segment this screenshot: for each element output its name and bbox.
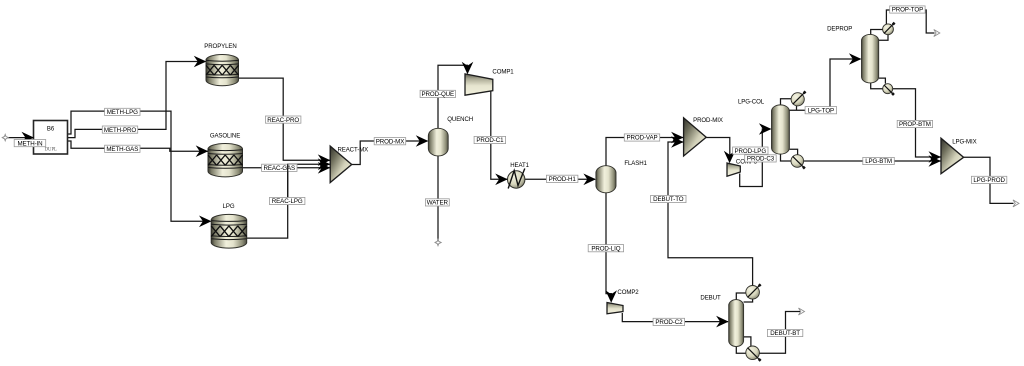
svg-text:PROD-C2: PROD-C2 [655, 319, 683, 326]
svg-text:PROP-BTM: PROP-BTM [899, 121, 931, 128]
svg-text:METH-IN: METH-IN [17, 140, 42, 147]
svg-text:PROD-VAP: PROD-VAP [626, 135, 657, 142]
svg-text:PROD-LPG: PROD-LPG [735, 148, 767, 155]
svg-text:METH-GAS: METH-GAS [106, 146, 138, 153]
svg-text:PROD-MIX: PROD-MIX [693, 117, 723, 124]
svg-text:DUPL: DUPL [45, 148, 57, 153]
svg-text:LPG-COL: LPG-COL [738, 98, 765, 105]
svg-text:PROD-QUE: PROD-QUE [422, 91, 455, 98]
svg-text:B6: B6 [47, 126, 55, 132]
svg-text:LPG-MIX: LPG-MIX [952, 139, 976, 146]
svg-text:QUENCH: QUENCH [447, 116, 473, 123]
svg-text:HEAT1: HEAT1 [510, 162, 529, 169]
svg-text:LPG-BTM: LPG-BTM [865, 158, 892, 165]
svg-text:METH-LPG: METH-LPG [107, 109, 138, 116]
svg-text:PROP-TOP: PROP-TOP [892, 7, 923, 14]
svg-text:PROD-LIQ: PROD-LIQ [591, 245, 620, 252]
svg-text:DEBUT: DEBUT [700, 295, 721, 302]
svg-text:PROD-C1: PROD-C1 [476, 137, 504, 144]
svg-text:LPG-TOP: LPG-TOP [808, 107, 834, 114]
svg-text:PROD-H1: PROD-H1 [549, 176, 577, 183]
svg-text:PROPYLEN: PROPYLEN [204, 43, 236, 50]
svg-text:PROD-MX: PROD-MX [376, 138, 405, 145]
svg-text:REAC-PRO: REAC-PRO [267, 117, 299, 124]
svg-text:LPG: LPG [223, 203, 235, 210]
svg-text:WATER: WATER [427, 200, 449, 207]
svg-text:DEPROP: DEPROP [827, 25, 852, 32]
svg-text:COMP1: COMP1 [492, 69, 514, 76]
svg-text:FLASH1: FLASH1 [624, 160, 647, 167]
svg-text:COMP2: COMP2 [617, 289, 639, 296]
svg-text:REAC-GAS: REAC-GAS [264, 165, 296, 172]
svg-text:REACT-MX: REACT-MX [337, 147, 368, 154]
svg-text:DEBUT-TO: DEBUT-TO [653, 196, 684, 203]
svg-text:METH-PRO: METH-PRO [104, 127, 136, 134]
svg-text:REAC-LPG: REAC-LPG [272, 198, 303, 205]
svg-text:LPG-PROD: LPG-PROD [973, 177, 1005, 184]
svg-text:DEBUT-BT: DEBUT-BT [770, 330, 800, 337]
svg-text:PROD-C3: PROD-C3 [747, 156, 775, 163]
svg-text:GASOLINE: GASOLINE [210, 132, 240, 139]
